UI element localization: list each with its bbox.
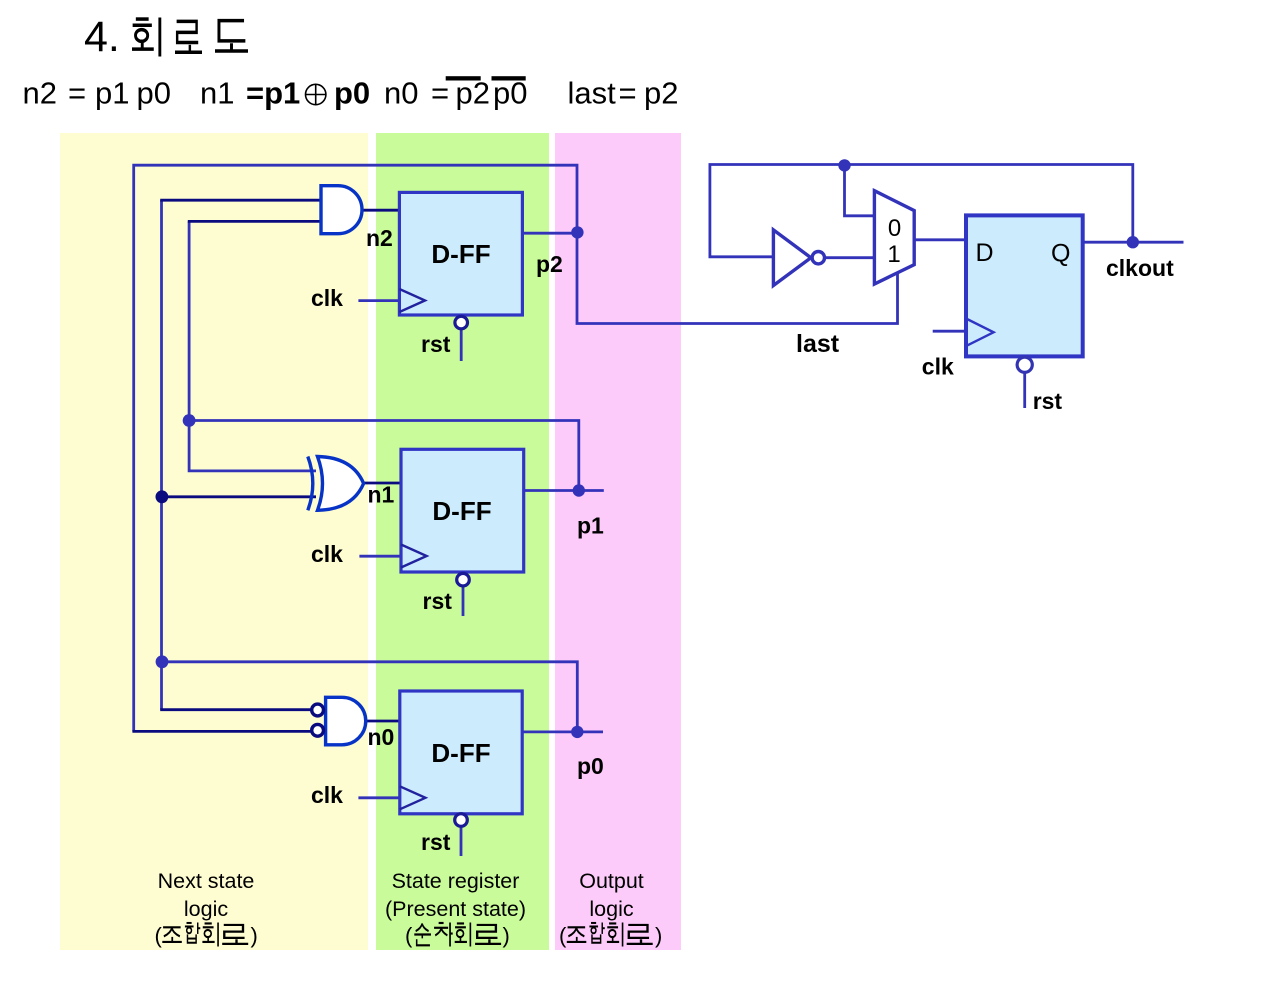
svg-text:(: (	[405, 923, 413, 948]
rst bubble U1	[455, 316, 468, 329]
svg-text:Q: Q	[1051, 240, 1070, 268]
svg-text:rst: rst	[423, 588, 453, 614]
D-FF U2 box	[401, 449, 524, 572]
title: 4. 회로도	[84, 13, 248, 61]
wire: p0 vertical to NAND top	[160, 662, 163, 710]
wire: right top loop (clkout feedback)	[710, 165, 1133, 257]
wire: clk stub DFF3	[358, 796, 399, 799]
wire: AND bottom input stub	[188, 220, 322, 223]
svg-text:0: 0	[888, 215, 901, 242]
wire: p2 feedback loop (top wire + left vertical)	[134, 165, 577, 731]
wire: XOR top input stub	[189, 421, 316, 471]
band: output logic (pink)	[555, 133, 681, 950]
AND gate n2	[321, 186, 362, 234]
svg-text:clk: clk	[922, 354, 954, 380]
wire: n0 gate output	[366, 720, 400, 723]
svg-text:p2: p2	[456, 75, 490, 110]
svg-text:logic: logic	[589, 897, 633, 921]
svg-text:1: 1	[887, 241, 900, 268]
svg-text:): )	[655, 923, 662, 948]
overbar p0	[492, 76, 526, 80]
wire: mux 0-input jog	[845, 165, 875, 216]
D-FF U4 (output flip-flop)	[966, 215, 1083, 356]
svg-text:State register: State register	[392, 869, 520, 893]
svg-text:last: last	[796, 330, 840, 358]
rst bubble U3	[455, 814, 468, 827]
wire: NAND top input stub	[160, 708, 312, 711]
svg-text:rst: rst	[421, 331, 451, 357]
svg-text:p0: p0	[137, 75, 171, 110]
svg-text:n0: n0	[368, 724, 395, 750]
node: p2 junction	[571, 226, 583, 238]
xor symbol in equation	[306, 84, 326, 104]
svg-text:n2: n2	[23, 75, 57, 110]
D-FF U1 box	[399, 192, 522, 315]
node: p0 feedback junction	[156, 655, 169, 668]
caption: (순차회로) col2	[405, 923, 510, 949]
wire: p0 feedback loop	[162, 200, 578, 732]
svg-text:(Present state): (Present state)	[385, 897, 526, 921]
wire: rst stub DFF1	[460, 329, 463, 361]
node: mux feedback junction	[838, 159, 850, 171]
svg-text:(: (	[559, 923, 567, 948]
wire: NAND bottom input stub	[132, 730, 312, 733]
wire: rst stub right DFF	[1023, 373, 1026, 409]
wire: last line to mux select	[577, 232, 898, 323]
svg-text:(: (	[155, 923, 163, 948]
svg-text:=: =	[431, 75, 449, 110]
equation line	[23, 75, 679, 110]
node: p0 junction	[571, 726, 583, 738]
svg-text:clk: clk	[311, 285, 343, 311]
svg-text:D-FF: D-FF	[431, 738, 490, 768]
svg-text:D: D	[976, 239, 994, 267]
caption: (조합회로) col3	[559, 923, 662, 949]
node: XOR bottom input junction	[156, 490, 169, 503]
wire: AND top input stub	[160, 199, 321, 202]
svg-text:D-FF: D-FF	[431, 239, 490, 269]
wire: XOR bottom input stub	[162, 495, 317, 498]
wire: n1 gate output	[363, 482, 401, 485]
svg-text:=: =	[619, 75, 637, 110]
svg-text:Output: Output	[579, 869, 644, 893]
svg-text:clk: clk	[311, 782, 343, 808]
svg-text:clk: clk	[311, 541, 343, 567]
caption: Next state logic	[158, 869, 255, 921]
svg-text:rst: rst	[421, 829, 451, 855]
svg-text:n1: n1	[368, 482, 395, 508]
XOR gate n1	[308, 457, 364, 511]
svg-text:n1: n1	[200, 75, 234, 110]
svg-text:p2: p2	[536, 251, 563, 277]
svg-text:n2: n2	[366, 225, 393, 251]
wire: p2 output stub	[522, 232, 577, 235]
svg-text:D-FF: D-FF	[432, 496, 491, 526]
wire: p1 feedback loop	[189, 221, 579, 490]
wire: rst stub DFF2	[462, 586, 465, 616]
node: clkout junction	[1127, 236, 1139, 248]
NAND-style gate n0 (AND with inverted inputs)	[326, 697, 366, 745]
caption: (조합회로) col1	[155, 923, 258, 949]
band: state register (green)	[376, 133, 549, 950]
caption: State register (Present state)	[385, 869, 526, 921]
wire: p1 output stub	[524, 489, 604, 492]
svg-text:=p1: =p1	[246, 75, 300, 110]
inverter (NOT gate)	[773, 230, 811, 286]
node: p1 junction	[573, 484, 585, 496]
wire: mux output to D	[914, 238, 966, 241]
svg-text:): )	[251, 923, 258, 948]
svg-text:last: last	[568, 75, 617, 110]
svg-text:=: =	[68, 75, 86, 110]
svg-text:p1: p1	[577, 513, 604, 539]
svg-text:4.: 4.	[84, 13, 120, 61]
rst bubble U4	[1017, 357, 1032, 372]
svg-text:): )	[503, 923, 510, 948]
input bubble n0 bottom	[312, 724, 324, 736]
svg-text:logic: logic	[184, 897, 228, 921]
overbar p2	[446, 76, 481, 80]
svg-text:p1: p1	[95, 75, 129, 110]
svg-text:p0: p0	[493, 75, 527, 110]
wire: n2 gate output	[362, 209, 400, 212]
svg-text:rst: rst	[1033, 388, 1063, 414]
caption: Output logic	[579, 869, 644, 921]
rst bubble U2	[457, 573, 470, 586]
svg-text:p2: p2	[644, 75, 678, 110]
wire: inverter output to mux	[825, 256, 875, 259]
wire: clk stub DFF2	[359, 555, 401, 558]
wire: rst stub DFF3	[460, 827, 463, 857]
wire: clk stub DFF1	[358, 299, 399, 302]
wire: clk stub right DFF	[933, 330, 966, 333]
node: p1 feedback junction	[183, 414, 196, 427]
svg-text:p0: p0	[577, 753, 604, 779]
D-FF U3 box	[400, 691, 522, 814]
svg-text:Next state: Next state	[158, 869, 255, 893]
band: next state logic (yellow)	[60, 133, 368, 950]
wire: p0 output stub	[522, 731, 603, 734]
svg-text:n0: n0	[384, 75, 418, 110]
inverter bubble	[812, 252, 824, 264]
input bubble n0 top	[312, 704, 324, 716]
svg-text:clkout: clkout	[1106, 255, 1174, 281]
svg-text:p0: p0	[334, 75, 370, 110]
wire: Q output clkout	[1083, 241, 1184, 244]
mux M1	[874, 191, 914, 284]
